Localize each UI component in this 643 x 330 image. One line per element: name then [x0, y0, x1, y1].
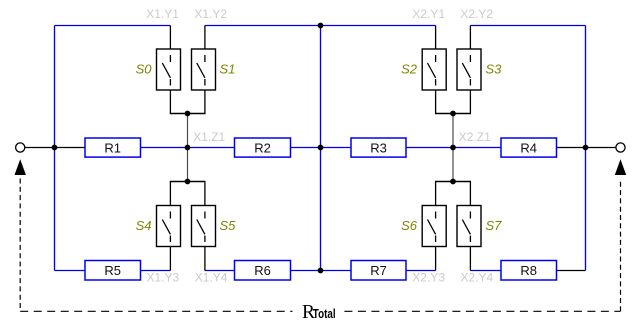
svg-text:R4: R4 — [520, 140, 537, 155]
resistor R6 — [235, 261, 291, 281]
wire S3 top — [469, 26, 471, 50]
wire S6 top — [435, 182, 437, 206]
svg-text:S1: S1 — [220, 62, 236, 77]
label R_Total — [302, 302, 336, 323]
svg-text:X1.Y1: X1.Y1 — [146, 7, 179, 21]
svg-text:R8: R8 — [520, 263, 537, 278]
switch S0 — [136, 49, 181, 90]
junction dot middle rail top — [318, 23, 324, 29]
junction dot right rail mid — [583, 145, 589, 151]
svg-text:X1.Y4: X1.Y4 — [195, 271, 228, 285]
wire left rail (blue vertical) — [54, 26, 56, 271]
svg-text:S0: S0 — [136, 62, 153, 77]
svg-text:S4: S4 — [136, 218, 152, 233]
terminal left — [16, 143, 25, 152]
switch S2 — [401, 49, 446, 90]
wire R4 to terminal right (black) — [557, 147, 616, 149]
wire dashed bottom left — [20, 310, 292, 312]
arrow right (R_Total measurement) — [615, 159, 626, 175]
wire R3 to R4 (blue) — [406, 147, 501, 149]
wire S2 top — [435, 26, 437, 50]
junction dot X1.Z1 mid — [185, 145, 191, 151]
wire top rail right segment — [470, 25, 585, 27]
wire S5 top — [204, 182, 206, 206]
svg-text:R1: R1 — [104, 140, 121, 155]
svg-text:R6: R6 — [254, 263, 271, 278]
svg-text:S2: S2 — [401, 62, 418, 77]
wire S6 S7 split bar — [435, 181, 471, 183]
svg-text:R2: R2 — [254, 140, 271, 155]
junction dot X2.Z1 top — [450, 111, 456, 117]
wire S7 top — [469, 182, 471, 206]
svg-text:X1.Y3: X1.Y3 — [147, 271, 180, 285]
wire S2 bottom — [435, 90, 437, 114]
svg-text:R5: R5 — [104, 263, 121, 278]
switch S4 — [136, 206, 181, 247]
wire R2 to R3 (blue) — [291, 147, 352, 149]
resistor R2 — [235, 138, 291, 157]
junction dot middle rail mid — [318, 145, 324, 151]
wire X1.Z1 vertical — [187, 114, 189, 182]
switch S6 — [401, 206, 446, 247]
svg-text:S7: S7 — [486, 218, 503, 233]
resistor R3 — [351, 138, 406, 157]
junction dot X1.Z1 top — [185, 111, 191, 117]
svg-text:X2.Y1: X2.Y1 — [412, 7, 445, 21]
wire S0 bottom — [169, 90, 171, 114]
svg-text:R7: R7 — [370, 263, 387, 278]
wire right rail (blue vertical) — [585, 26, 587, 271]
wire S7 drop to R8 (blue) — [470, 270, 501, 272]
svg-text:X2.Z1: X2.Z1 — [459, 130, 491, 144]
wire S2 S3 merge bar — [435, 113, 471, 115]
wire R8 to right rail (black) — [557, 270, 586, 272]
resistor R8 — [501, 261, 557, 281]
wire terminal to node left (black) — [25, 147, 85, 149]
arrow left (R_Total measurement) — [15, 159, 26, 175]
svg-text:R3: R3 — [370, 140, 387, 155]
wire R6 to R7 (blue) — [291, 270, 352, 272]
wire X2.Z1 vertical — [452, 114, 454, 182]
resistor R5 — [85, 261, 141, 281]
switch S3 — [457, 49, 502, 90]
wire dashed bottom right — [344, 310, 620, 312]
resistor R7 — [351, 261, 406, 281]
junction dot middle rail bottom — [318, 268, 324, 274]
svg-text:S3: S3 — [486, 62, 503, 77]
wire S4 bottom — [169, 247, 171, 271]
wire R1 to R2 (blue) — [141, 147, 235, 149]
wire bottom rail to R5 (blue) — [55, 270, 86, 272]
wire middle vertical rail — [320, 26, 322, 271]
svg-text:X1.Z1: X1.Z1 — [193, 130, 225, 144]
svg-text:Total: Total — [313, 306, 336, 321]
wire S0 S1 merge bar — [170, 113, 206, 115]
wire top rail middle segment — [205, 25, 436, 27]
wire S5 bottom — [204, 247, 206, 271]
wire S3 bottom — [469, 90, 471, 114]
wire S1 bottom — [204, 90, 206, 114]
wire S4 top — [169, 182, 171, 206]
wire R7 to S6 drop (blue) — [406, 270, 436, 272]
junction dot X2.Z1 mid — [450, 145, 456, 151]
junction dot X1.Z1 bottom — [185, 179, 191, 185]
switch S7 — [457, 206, 502, 247]
svg-text:S5: S5 — [220, 218, 237, 233]
wire S7 bottom — [469, 247, 471, 271]
svg-text:X1.Y2: X1.Y2 — [194, 7, 227, 21]
terminal right — [616, 143, 625, 152]
svg-text:X2.Y2: X2.Y2 — [460, 7, 493, 21]
wire S4 S5 split bar — [170, 181, 206, 183]
switch S5 — [192, 206, 237, 247]
junction dot X2.Z1 bottom — [450, 179, 456, 185]
wire S1 top — [204, 26, 206, 50]
svg-text:X2.Y4: X2.Y4 — [461, 271, 494, 285]
switch S1 — [192, 49, 236, 90]
wire S6 bottom — [435, 247, 437, 271]
wire top rail left segment — [55, 25, 171, 27]
resistor R1 — [85, 138, 141, 157]
wire S5 drop to R6 (blue) — [205, 270, 235, 272]
wire S0 top — [169, 26, 171, 50]
wire dashed right vertical — [620, 179, 622, 312]
wire dashed left vertical — [19, 179, 21, 312]
svg-text:S6: S6 — [401, 218, 418, 233]
junction dot left rail mid — [52, 145, 58, 151]
wire R5 to S4 drop (blue) — [141, 270, 171, 272]
resistor R4 — [501, 138, 557, 157]
svg-text:X2.Y3: X2.Y3 — [412, 271, 445, 285]
